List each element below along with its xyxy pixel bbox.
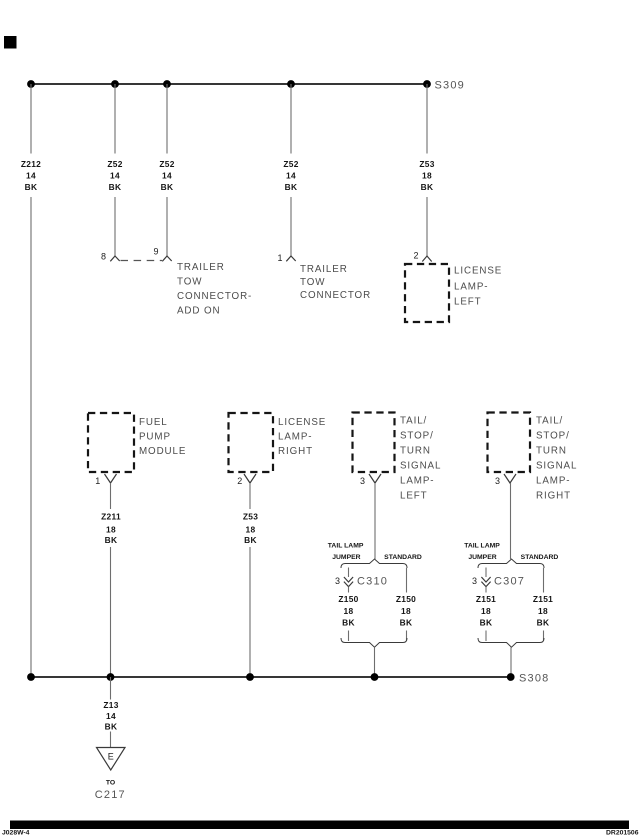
- svg-text:TRAILER: TRAILER: [177, 262, 225, 273]
- svg-text:Z53: Z53: [243, 512, 258, 522]
- svg-text:PUMP: PUMP: [139, 432, 171, 443]
- connector fork pin 3 tail lamp right: [504, 474, 516, 483]
- junction dot S309 bus at Z52 pin9: [163, 80, 171, 88]
- svg-text:BK: BK: [480, 618, 493, 628]
- svg-text:18: 18: [422, 171, 432, 181]
- svg-text:CONNECTOR: CONNECTOR: [300, 290, 371, 301]
- wire Z13 upper: [110, 677, 112, 700]
- svg-text:14: 14: [162, 171, 172, 181]
- wire label Z150 18 BK (standard): [396, 594, 416, 628]
- svg-text:3: 3: [335, 576, 340, 586]
- svg-text:Z13: Z13: [103, 700, 118, 710]
- svg-text:18: 18: [538, 606, 548, 616]
- wire left branch C310 lower stub: [348, 631, 350, 642]
- wire Z52 to pin 8 upper: [114, 84, 116, 154]
- svg-text:Z52: Z52: [283, 159, 298, 169]
- junction dot S309: [423, 80, 431, 88]
- svg-text:LAMP-: LAMP-: [536, 476, 570, 487]
- svg-text:3: 3: [472, 576, 477, 586]
- svg-text:C217: C217: [95, 789, 126, 801]
- junction dot S308 at Z211: [107, 673, 115, 681]
- svg-text:Z52: Z52: [159, 159, 174, 169]
- wire label Z53 18 BK (license right): [243, 512, 258, 546]
- svg-text:SIGNAL: SIGNAL: [536, 461, 577, 472]
- svg-text:STANDARD: STANDARD: [384, 554, 422, 561]
- svg-text:E: E: [108, 752, 114, 762]
- dashed jumper wire between pin 8 and pin 9: [121, 260, 163, 262]
- junction dot S309 bus at Z52 trailer tow: [287, 80, 295, 88]
- wire Z211 lower (to S308): [110, 547, 112, 677]
- wire Z212 upper: [30, 84, 32, 154]
- svg-text:LEFT: LEFT: [454, 297, 482, 308]
- wire from tail lamp right to split: [510, 483, 512, 559]
- svg-text:Z150: Z150: [338, 594, 358, 604]
- svg-text:14: 14: [286, 171, 296, 181]
- svg-text:STANDARD: STANDARD: [521, 554, 559, 561]
- label FUEL PUMP MODULE: [139, 417, 186, 457]
- wire right branch C310 upper: [406, 568, 408, 593]
- wire label Z150 18 BK (jumper): [338, 594, 358, 628]
- wire right branch C310 lower stub: [406, 631, 408, 642]
- svg-text:J028W-4: J028W-4: [2, 830, 30, 837]
- svg-text:C310: C310: [357, 576, 388, 588]
- svg-text:14: 14: [26, 171, 36, 181]
- connector fork pin 8 trailer tow add-on: [110, 256, 119, 261]
- junction dot S308 at Z212: [27, 673, 35, 681]
- svg-text:9: 9: [153, 247, 158, 257]
- wire from C307 merge to S308: [510, 647, 512, 677]
- svg-text:LICENSE: LICENSE: [454, 266, 502, 277]
- component box LICENSE LAMP-RIGHT: [229, 413, 274, 472]
- svg-text:TAIL/: TAIL/: [536, 416, 563, 427]
- wire label Z13 14 BK: [103, 700, 118, 732]
- wire Z52 to pin 9 lower: [166, 197, 168, 256]
- wire Z53 to license lamp left upper: [426, 84, 428, 154]
- svg-text:14: 14: [106, 711, 116, 721]
- junction dot S308 at Z53: [246, 673, 254, 681]
- svg-text:Z52: Z52: [107, 159, 122, 169]
- component box FUEL PUMP MODULE: [88, 413, 134, 472]
- svg-text:STOP/: STOP/: [400, 431, 434, 442]
- svg-text:BK: BK: [109, 182, 122, 192]
- svg-text:18: 18: [246, 525, 256, 535]
- svg-text:TURN: TURN: [400, 446, 431, 457]
- wire below chevron C310: [348, 587, 350, 593]
- svg-text:18: 18: [481, 606, 491, 616]
- svg-text:LEFT: LEFT: [400, 491, 428, 502]
- svg-text:CONNECTOR-: CONNECTOR-: [177, 291, 252, 302]
- wire Z13 lower: [110, 732, 112, 748]
- wire label Z52 14 BK (pin 9): [159, 159, 174, 192]
- svg-text:TOW: TOW: [300, 277, 325, 288]
- svg-text:Z212: Z212: [21, 159, 41, 169]
- svg-text:18: 18: [106, 525, 116, 535]
- svg-text:BK: BK: [105, 535, 118, 545]
- svg-text:TAIL LAMP: TAIL LAMP: [464, 543, 500, 550]
- svg-text:14: 14: [110, 171, 120, 181]
- svg-text:TURN: TURN: [536, 446, 567, 457]
- in-line connector C310 double chevron: [344, 577, 353, 587]
- svg-text:S308: S308: [519, 673, 550, 685]
- junction dot S309 bus at Z212: [27, 80, 35, 88]
- wire label Z212 14 BK: [21, 159, 41, 192]
- svg-text:DR201506: DR201506: [606, 830, 639, 837]
- svg-text:BK: BK: [25, 182, 38, 192]
- connector fork pin 2 license lamp right: [244, 474, 256, 483]
- wire Z53 right upper: [249, 483, 251, 509]
- connector fork pin 9 trailer tow add-on: [162, 256, 171, 261]
- connector fork pin 3 tail lamp left: [369, 474, 381, 483]
- svg-text:2: 2: [237, 476, 242, 486]
- svg-text:TAIL LAMP: TAIL LAMP: [328, 543, 364, 550]
- svg-text:BK: BK: [400, 618, 413, 628]
- wire label Z52 14 BK (trailer tow): [283, 159, 298, 192]
- junction dot S308: [507, 673, 515, 681]
- wire label Z53 18 BK (license left): [419, 159, 434, 192]
- svg-text:3: 3: [360, 476, 365, 486]
- svg-text:Z150: Z150: [396, 594, 416, 604]
- svg-text:BK: BK: [537, 618, 550, 628]
- scan mark bar bottom: [10, 821, 629, 830]
- ground symbol E triangle: [97, 748, 126, 771]
- svg-text:JUMPER: JUMPER: [468, 554, 496, 561]
- wire label Z52 14 BK (pin 8): [107, 159, 122, 192]
- in-line connector C307 double chevron: [481, 577, 490, 587]
- svg-text:Z211: Z211: [101, 512, 121, 522]
- svg-text:TRAILER: TRAILER: [300, 264, 348, 275]
- connector fork pin 2 license lamp left: [422, 256, 431, 262]
- component box TAIL/STOP/TURN SIGNAL LAMP-LEFT: [353, 413, 395, 473]
- label LICENSE LAMP- LEFT: [454, 266, 502, 308]
- label TRAILER TOW CONNECTOR- ADD ON: [177, 262, 252, 317]
- svg-text:LAMP-: LAMP-: [278, 432, 312, 443]
- svg-text:RIGHT: RIGHT: [536, 491, 571, 502]
- wire label Z211 18 BK: [101, 512, 121, 546]
- svg-text:ADD ON: ADD ON: [177, 306, 221, 317]
- splice S309 bus wire: [31, 83, 427, 85]
- component box TAIL/STOP/TURN SIGNAL LAMP-RIGHT: [488, 413, 531, 473]
- scan mark square top-left: [4, 36, 17, 49]
- label TAIL LAMP JUMPER (C310): [328, 543, 364, 562]
- splice S308 bus wire: [31, 676, 511, 678]
- junction dot S309 bus at Z52 pin8: [111, 80, 119, 88]
- wire Z211 upper: [110, 483, 112, 509]
- wire Z212 lower (to S308): [30, 197, 32, 677]
- wire from tail lamp left to split: [374, 483, 376, 559]
- merge brace bottom C310: [341, 638, 407, 647]
- svg-text:C307: C307: [494, 576, 525, 588]
- svg-text:LAMP-: LAMP-: [400, 476, 434, 487]
- svg-text:LICENSE: LICENSE: [278, 417, 326, 428]
- svg-text:18: 18: [344, 606, 354, 616]
- svg-text:RIGHT: RIGHT: [278, 446, 313, 457]
- wire right branch C307 lower stub: [543, 631, 545, 642]
- wire left branch C307 stub: [485, 568, 487, 578]
- svg-text:1: 1: [277, 253, 282, 263]
- connector fork pin 1 trailer tow: [286, 256, 295, 261]
- svg-text:MODULE: MODULE: [139, 446, 186, 457]
- svg-text:S309: S309: [435, 80, 466, 92]
- svg-text:BK: BK: [105, 722, 118, 732]
- wire Z53 right lower (to S308): [249, 547, 251, 677]
- svg-text:Z151: Z151: [533, 594, 553, 604]
- svg-text:SIGNAL: SIGNAL: [400, 461, 441, 472]
- svg-text:18: 18: [401, 606, 411, 616]
- wire right branch C307 upper: [543, 568, 545, 593]
- svg-text:8: 8: [101, 252, 106, 262]
- svg-text:2: 2: [413, 251, 418, 261]
- svg-text:BK: BK: [342, 618, 355, 628]
- label TAIL/ STOP/ TURN SIGNAL LAMP- RIGHT: [536, 416, 577, 502]
- svg-text:FUEL: FUEL: [139, 417, 168, 428]
- svg-text:Z53: Z53: [419, 159, 434, 169]
- wire Z52 to trailer tow connector upper: [290, 84, 292, 154]
- wire from C310 merge to S308: [374, 647, 376, 677]
- svg-text:BK: BK: [244, 535, 257, 545]
- wire below chevron C307: [485, 587, 487, 593]
- svg-text:TO: TO: [106, 780, 115, 787]
- split brace top C310: [341, 559, 407, 568]
- svg-text:Z151: Z151: [476, 594, 496, 604]
- svg-text:TAIL/: TAIL/: [400, 416, 427, 427]
- svg-text:BK: BK: [161, 182, 174, 192]
- svg-text:BK: BK: [421, 182, 434, 192]
- label TAIL/ STOP/ TURN SIGNAL LAMP- LEFT: [400, 416, 441, 502]
- svg-text:LAMP-: LAMP-: [454, 282, 488, 293]
- svg-text:JUMPER: JUMPER: [332, 554, 360, 561]
- wire left branch C307 lower stub: [485, 631, 487, 642]
- wire Z52 to trailer tow connector lower: [290, 197, 292, 256]
- merge brace bottom C307: [478, 638, 544, 647]
- label TAIL LAMP JUMPER (C307): [464, 543, 500, 562]
- wire label Z151 18 BK (jumper): [476, 594, 496, 628]
- svg-text:1: 1: [95, 476, 100, 486]
- wire Z52 to pin 9 upper: [166, 84, 168, 154]
- connector fork pin 1 fuel pump module: [105, 474, 117, 483]
- wire Z53 to license lamp left lower: [426, 197, 428, 256]
- wire label Z151 18 BK (standard): [533, 594, 553, 628]
- svg-text:STOP/: STOP/: [536, 431, 570, 442]
- split brace top C307: [478, 559, 544, 568]
- junction dot S308 at Z150: [371, 673, 379, 681]
- svg-text:TOW: TOW: [177, 277, 202, 288]
- label LICENSE LAMP- RIGHT: [278, 417, 326, 457]
- svg-text:BK: BK: [285, 182, 298, 192]
- svg-text:3: 3: [495, 476, 500, 486]
- wire left branch C310 stub: [348, 568, 350, 578]
- label TRAILER TOW CONNECTOR: [300, 264, 371, 301]
- component box LICENSE LAMP-LEFT: [405, 264, 449, 322]
- wire Z52 to pin 8 lower: [114, 197, 116, 256]
